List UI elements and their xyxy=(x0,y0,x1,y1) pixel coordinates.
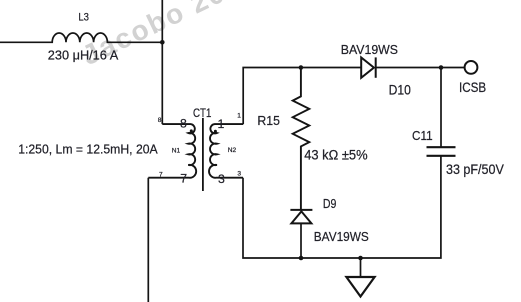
wire: CT1 pin 7 down to bottom edge xyxy=(147,178,149,302)
svg-text:D10: D10 xyxy=(389,83,412,98)
wire: CT1 pin 3 riser, bottom rail and right riser xyxy=(243,156,441,258)
wire: top rail from D10 cathode to ICSB xyxy=(376,67,465,69)
svg-text:D9: D9 xyxy=(323,196,337,211)
svg-text:33 pF/50V: 33 pF/50V xyxy=(446,162,504,177)
terminal ICSB xyxy=(465,61,478,74)
svg-text:7: 7 xyxy=(159,171,163,178)
wire: C11 top plate to top rail node xyxy=(440,68,442,148)
resistor R15 xyxy=(293,68,310,210)
polarity dot N2 xyxy=(214,130,217,133)
junction: L3 / CT1 pin 8 node xyxy=(160,40,165,45)
svg-text:3: 3 xyxy=(218,172,225,186)
svg-text:C11: C11 xyxy=(412,128,433,143)
svg-text:R15: R15 xyxy=(257,113,280,128)
watermark xyxy=(77,0,262,71)
svg-text:7: 7 xyxy=(180,171,187,185)
svg-text:8: 8 xyxy=(158,117,162,124)
svg-text:43 kΩ ±5%: 43 kΩ ±5% xyxy=(304,147,367,162)
diode D9 xyxy=(290,210,312,224)
svg-text:L3: L3 xyxy=(78,11,89,23)
svg-text:1: 1 xyxy=(237,112,241,119)
polarity dot N1 xyxy=(190,129,193,132)
wire: CT1 pin 1 riser and top rail xyxy=(243,68,361,125)
svg-text:CT1: CT1 xyxy=(193,106,212,120)
svg-text:BAV19WS: BAV19WS xyxy=(314,229,369,244)
transformer CT1 primary winding N1 xyxy=(148,124,196,178)
svg-text:230 μH/16 A: 230 μH/16 A xyxy=(48,48,119,63)
svg-text:BAV19WS: BAV19WS xyxy=(341,42,398,57)
inductor L3 xyxy=(0,33,162,42)
svg-text:1: 1 xyxy=(218,117,225,131)
wire: D9 anode to bottom rail xyxy=(300,223,302,258)
svg-text:1:250, Lm = 12.5mH, 20A: 1:250, Lm = 12.5mH, 20A xyxy=(18,141,158,156)
svg-text:N1: N1 xyxy=(172,148,181,155)
junction: bottom rail / ground node xyxy=(358,256,363,261)
capacitor C11 xyxy=(427,147,456,156)
wire: top vertical to node at L3 output xyxy=(161,0,163,124)
transformer core xyxy=(202,118,204,191)
junction: bottom rail / D9 anode node xyxy=(299,256,304,261)
svg-text:8: 8 xyxy=(180,116,187,130)
diode D10 xyxy=(361,57,376,77)
svg-text:N2: N2 xyxy=(228,147,237,154)
junction: D10 cathode / C11 / ICSB node xyxy=(439,65,444,70)
ground xyxy=(346,258,374,297)
transformer CT1 secondary winding N2 xyxy=(209,124,243,178)
svg-text:3: 3 xyxy=(237,170,241,177)
svg-text:ICSB: ICSB xyxy=(459,79,486,95)
junction: top rail / R15 node xyxy=(299,65,304,70)
